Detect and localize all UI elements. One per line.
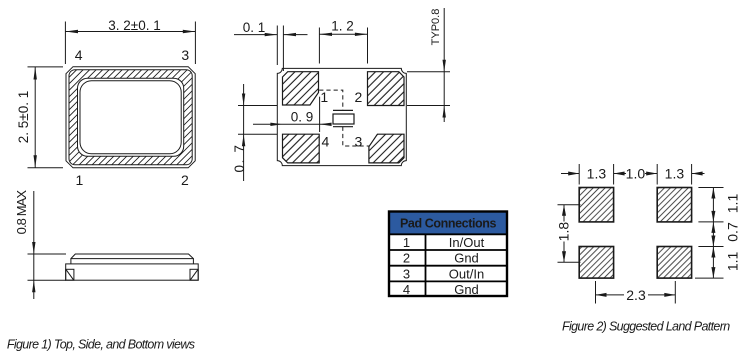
- svg-text:In/Out: In/Out: [449, 235, 485, 250]
- land dimension 2.3 extension lines: [596, 281, 676, 304]
- svg-text:Figure 2) Suggested Land Patte: Figure 2) Suggested Land Pattern: [562, 320, 730, 334]
- dimension 0.8 MAX line: [33, 191, 35, 299]
- side view right terminal diagonal: [191, 270, 198, 280]
- svg-text:4: 4: [403, 282, 410, 297]
- svg-text:TYP0.8: TYP0.8: [430, 9, 442, 46]
- top view outer outline: [66, 67, 195, 168]
- top view seal-ring hatch band: [69, 70, 192, 165]
- svg-text:3. 2±0. 1: 3. 2±0. 1: [108, 18, 160, 33]
- svg-text:Pad Connections: Pad Connections: [400, 217, 497, 231]
- svg-text:1: 1: [320, 89, 328, 105]
- dimension 3.2±0.1 arrows: [65, 30, 78, 33]
- bottom view pad 1 (top-left, notched): [283, 72, 319, 105]
- side view body: [66, 264, 199, 280]
- side view left terminal diagonal: [66, 270, 73, 280]
- svg-text:4: 4: [322, 133, 330, 149]
- svg-text:1.3: 1.3: [587, 166, 607, 182]
- svg-text:2. 5±0. 1: 2. 5±0. 1: [16, 91, 31, 143]
- land dimension 1.1 bottom arrows: [711, 247, 715, 258]
- land dimension 1.1/0.7/1.1 extension lines: [695, 188, 724, 279]
- land dimension line segments: [561, 173, 579, 175]
- svg-text:1.1: 1.1: [724, 251, 740, 271]
- svg-text:Out/In: Out/In: [449, 266, 484, 281]
- dimension 2.5±0.1 extension lines: [28, 67, 64, 168]
- bottom view pad 4 (bottom-left): [283, 134, 320, 163]
- land dimension 1.3/1.0/1.3 extension lines: [561, 164, 705, 185]
- land dimension 0.7 arrows: [711, 222, 715, 233]
- svg-text:0. 7: 0. 7: [232, 144, 247, 173]
- dimension 0.1 extension lines: [234, 26, 308, 72]
- top view seal-ring inner edge: [78, 78, 184, 156]
- table header background: [389, 212, 507, 235]
- svg-text:0.7: 0.7: [724, 222, 740, 242]
- side view left terminal pad: [66, 269, 74, 280]
- svg-text:1: 1: [403, 235, 410, 250]
- land pad top-right: [657, 188, 691, 222]
- dimension TYP0.8 line: [443, 8, 445, 122]
- land pad bottom-right: [657, 247, 691, 279]
- svg-text:1.1: 1.1: [724, 194, 740, 214]
- svg-text:0. 9: 0. 9: [291, 110, 314, 125]
- land dimension 1.8 arrows: [562, 205, 566, 216]
- svg-text:Gnd: Gnd: [454, 251, 479, 266]
- svg-text:2.3: 2.3: [626, 287, 646, 303]
- dimension 0.7 arrows: [242, 94, 245, 106]
- dimension 0.7 line: [243, 84, 245, 181]
- land dimension 1.8 text: [557, 222, 572, 242]
- svg-text:3: 3: [403, 266, 410, 281]
- land dimension right line: [712, 188, 714, 279]
- side view lid step: [71, 259, 193, 264]
- dimension 3.2±0.1 extension lines: [65, 22, 195, 65]
- dimension 1.2 line: [319, 33, 367, 35]
- side view lid top: [71, 254, 193, 259]
- table grid: [389, 212, 507, 297]
- svg-text:2: 2: [403, 251, 410, 266]
- land dimension 2.3 line: [596, 294, 676, 296]
- svg-text:3: 3: [181, 47, 189, 63]
- top view seal-ring outer edge: [69, 70, 192, 165]
- bottom view outer outline: [277, 68, 406, 165]
- dimension 0.1 arrows: [265, 33, 278, 36]
- dimension 2.5±0.1 line: [34, 67, 36, 168]
- svg-text:2: 2: [355, 89, 363, 105]
- bottom view pad 2 (top-right): [368, 72, 405, 106]
- land dimension text 1.0: [626, 166, 645, 181]
- svg-text:Gnd: Gnd: [454, 282, 479, 297]
- dimension 3.2±0.1 line: [65, 31, 195, 33]
- svg-text:3: 3: [355, 133, 363, 149]
- svg-text:1.8: 1.8: [556, 222, 572, 242]
- land dimension 2.3 arrows: [596, 293, 607, 297]
- land pad bottom-left: [579, 247, 613, 279]
- svg-text:0. 1: 0. 1: [243, 20, 266, 35]
- top view cavity edge: [80, 81, 181, 154]
- dimension 1.2 extension lines: [319, 28, 367, 64]
- land dimension 1.8 line: [563, 205, 565, 263]
- svg-text:1: 1: [76, 172, 84, 188]
- land dimension arrows top: [568, 172, 579, 176]
- land dimension 2.3 text: [624, 287, 648, 302]
- inner pad edge line between pad 1 and pad 4: [319, 97, 321, 132]
- internal connection dashed lines: [319, 90, 369, 146]
- dimension TYP0.8 extension lines: [407, 8, 450, 122]
- svg-text:2: 2: [181, 172, 189, 188]
- svg-text:1.3: 1.3: [665, 166, 685, 182]
- svg-text:0.8 MAX: 0.8 MAX: [14, 190, 29, 235]
- dimension 0.9 line: [253, 123, 332, 125]
- svg-text:1. 2: 1. 2: [331, 19, 354, 34]
- land pad top-left: [579, 188, 613, 222]
- svg-text:4: 4: [75, 47, 83, 63]
- dimension 1.2 arrows: [319, 33, 332, 36]
- svg-text:1.0: 1.0: [626, 166, 646, 182]
- dimension 2.5±0.1 arrows: [34, 67, 37, 80]
- land dimension 1.8 extension lines: [558, 205, 581, 263]
- svg-text:Figure 1) Top, Side, and Botto: Figure 1) Top, Side, and Bottom views: [7, 338, 195, 352]
- dimension 0.9 arrows: [270, 123, 282, 126]
- dimension 0.1 line: [234, 34, 277, 36]
- dimension TYP0.8 arrows: [443, 60, 446, 72]
- dimension 0.8 MAX extension lines: [28, 191, 67, 299]
- dimension 0.8 MAX arrows: [32, 242, 35, 254]
- land dimension 1.1 top arrows: [711, 188, 715, 199]
- side view right terminal pad: [190, 269, 198, 280]
- dimension 0.7 extension lines: [238, 84, 277, 181]
- crystal element symbol: [333, 110, 354, 126]
- bottom view pad 3 (bottom-right, notched): [369, 134, 404, 163]
